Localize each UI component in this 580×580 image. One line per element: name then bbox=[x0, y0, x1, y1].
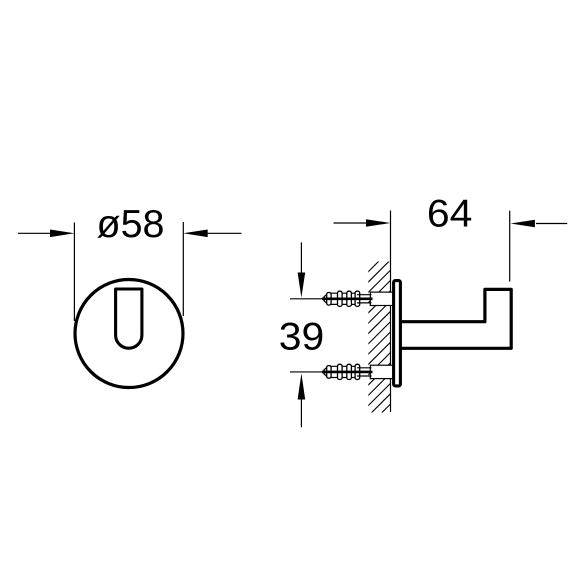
dimension 64 left line bbox=[334, 222, 369, 224]
arrow left ø58 bbox=[50, 230, 74, 238]
dimension line right of ø58 bbox=[206, 232, 242, 234]
dimension 39 top line bbox=[300, 242, 302, 273]
backplate (side) bbox=[394, 281, 401, 386]
extension line right ø58 bbox=[182, 222, 184, 316]
backplate circle (front) bbox=[75, 280, 183, 388]
arrow 64 left bbox=[366, 219, 390, 227]
dimension line left of ø58 bbox=[18, 232, 52, 234]
extension line left ø58 bbox=[73, 223, 75, 322]
svg-text:64: 64 bbox=[427, 193, 473, 236]
arrow 39 top bbox=[298, 273, 306, 298]
arrow 39 bottom bbox=[298, 373, 306, 399]
arrow 64 right bbox=[511, 220, 535, 228]
svg-text:ø58: ø58 bbox=[97, 203, 165, 246]
screw bottom bbox=[290, 364, 373, 379]
hook body (side) bbox=[400, 289, 511, 348]
wall hatching bbox=[358, 240, 400, 457]
arrow right ø58 bbox=[183, 230, 207, 238]
dimension 39 bottom line bbox=[300, 399, 302, 427]
svg-text:39: 39 bbox=[279, 315, 325, 358]
screw hole top bbox=[370, 292, 393, 305]
hook slot (front) bbox=[116, 289, 142, 348]
dimension 64 right line bbox=[536, 223, 567, 225]
screw hole bottom bbox=[370, 365, 393, 378]
screw top bbox=[290, 291, 373, 306]
wall face line bbox=[390, 211, 392, 413]
extension line 64 right bbox=[509, 211, 511, 282]
